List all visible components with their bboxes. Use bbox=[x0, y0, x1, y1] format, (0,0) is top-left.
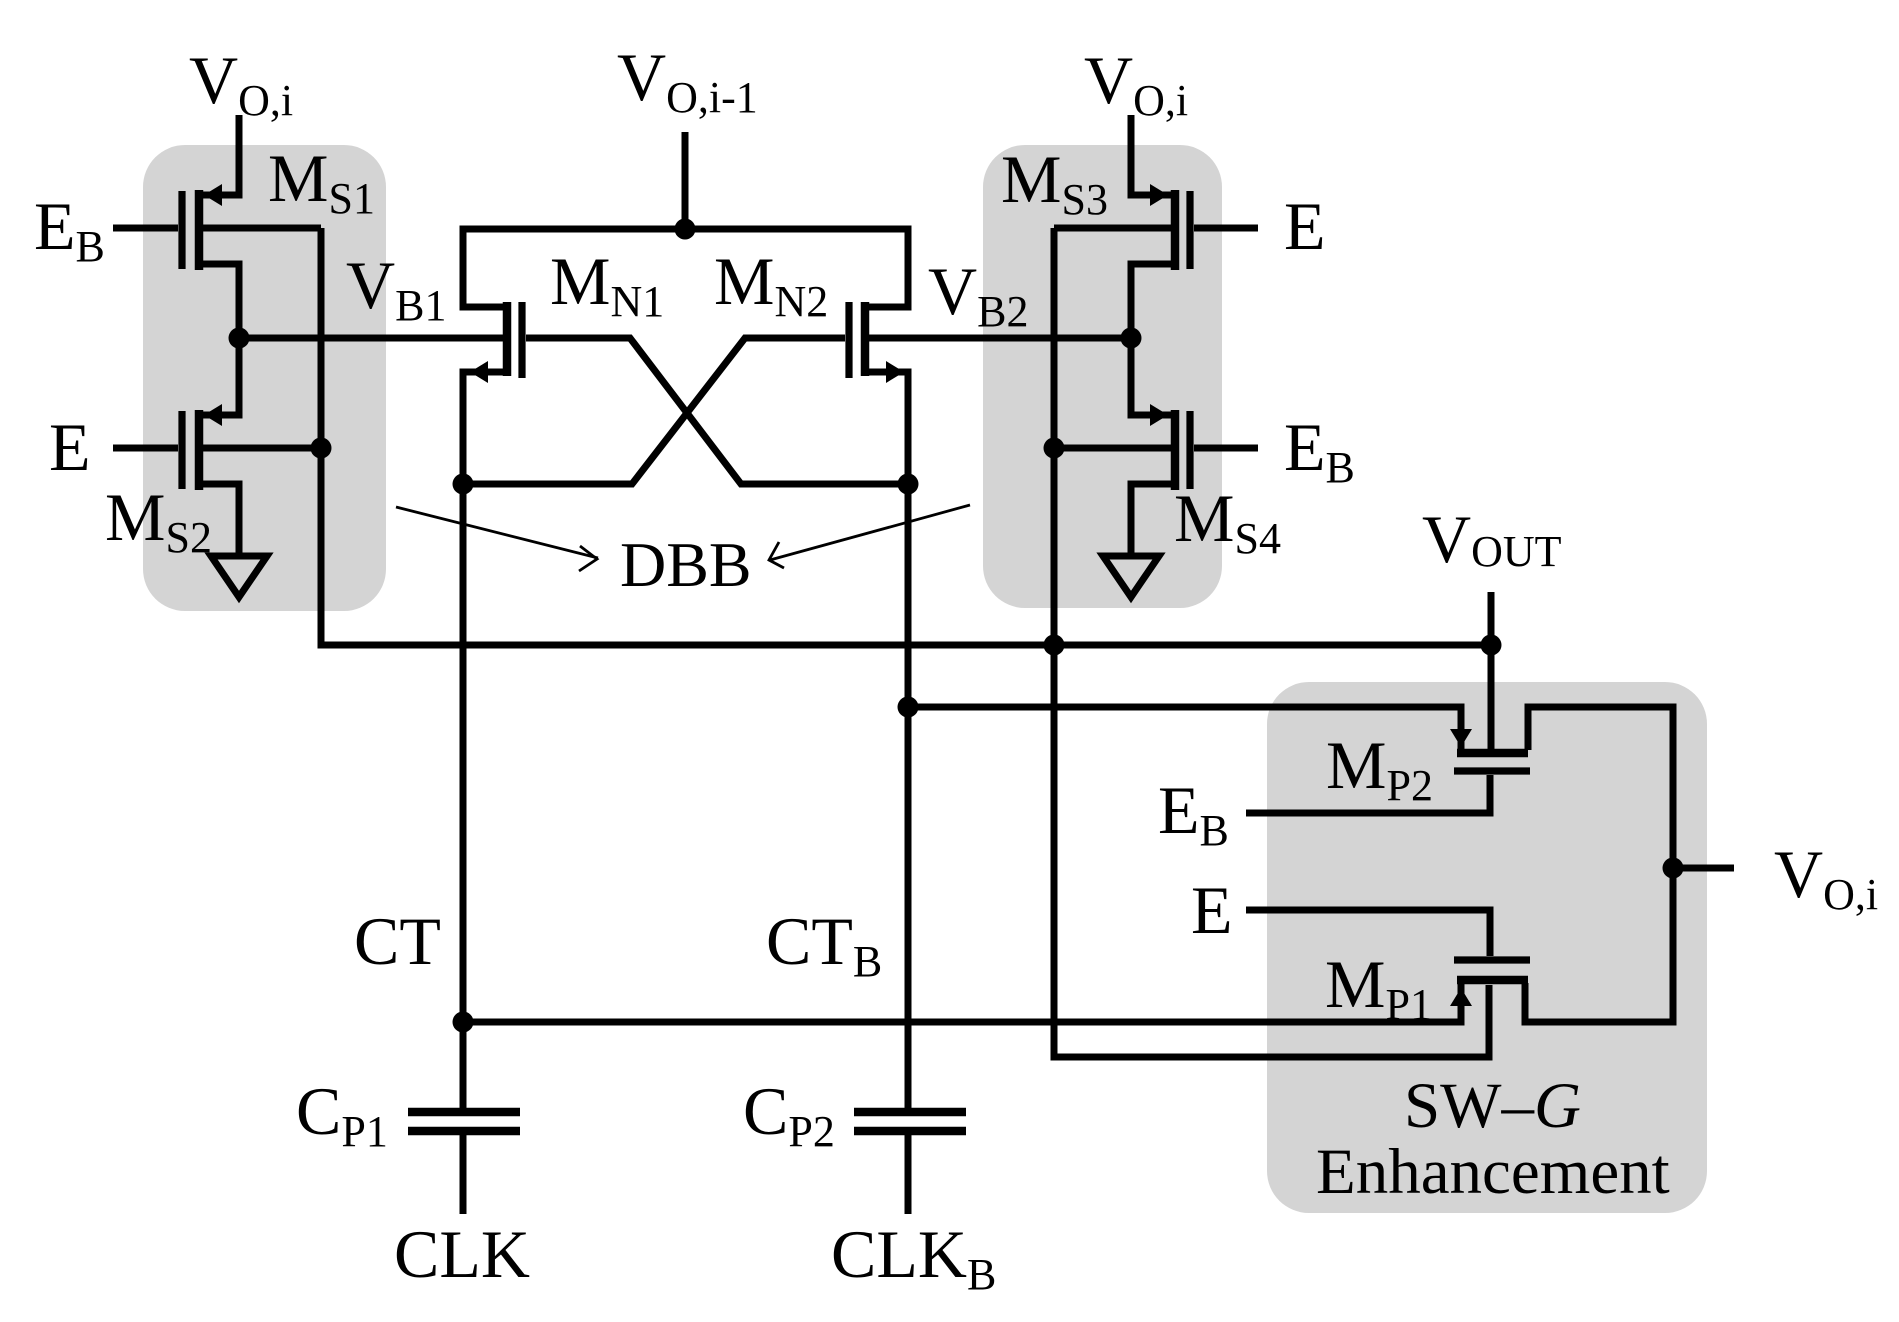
wire V_O,i drop + M_S1 drain lead bbox=[202, 115, 239, 195]
node V_B1 junction dot bbox=[229, 328, 250, 349]
wire M_S1 source lead down to V_B1 bbox=[202, 264, 239, 338]
shaded block: SW-G Enhancement bbox=[1267, 682, 1707, 1213]
transistor M_S2 gate bar bbox=[178, 411, 185, 489]
svg-text:CT: CT bbox=[354, 903, 441, 979]
wire E_B gate lead of M_S1 bbox=[113, 225, 178, 232]
wire V_B1 to M_N1 body bbox=[239, 335, 503, 342]
wire M_N2 gate cross-coupled to CT node bbox=[463, 338, 845, 484]
transistor M_S2 channel bar bbox=[195, 410, 204, 490]
transistor M_P2 gate bar bbox=[1454, 767, 1530, 774]
transistor M_S4 channel bar bbox=[1171, 410, 1180, 490]
transistor M_N1 source arrow (NMOS) bbox=[470, 361, 488, 383]
transistor M_N2 gate bar bbox=[845, 302, 852, 378]
wire M_S1 body lead bbox=[202, 225, 321, 232]
svg-text:E: E bbox=[49, 409, 91, 485]
wire M_N1 gate cross-coupled to CT_B node bbox=[526, 338, 908, 484]
transistor M_N2 channel bar bbox=[861, 302, 870, 376]
node body junction dot (M_S1/M_S2) bbox=[311, 438, 332, 459]
wire M_S4 body lead bbox=[1054, 445, 1172, 452]
wire V_OUT drop to rail and M_P2 body bbox=[1488, 592, 1495, 750]
wire M_P1 source lead + CT wire bbox=[463, 984, 1461, 1022]
wire CT_B to M_P2 source bbox=[908, 707, 1461, 752]
node CT_B junction dot (cross-couple right) bbox=[898, 474, 919, 495]
wire V_O,i output stub bbox=[1673, 865, 1734, 872]
svg-text:E: E bbox=[1191, 872, 1233, 948]
capacitor C_P1 bottom plate bbox=[408, 1127, 520, 1136]
wire bulk line from right switches down to M_P1 body bbox=[1054, 228, 1489, 1057]
wire E gate lead of M_S2 bbox=[113, 445, 178, 452]
transistor M_N2 source arrow (NMOS) bbox=[886, 361, 904, 383]
wire V_B2 from M_N2 body to right switches bbox=[869, 335, 1131, 342]
transistor M_S3 gate bar bbox=[1186, 191, 1193, 269]
ground symbol (right) bbox=[1103, 556, 1159, 597]
capacitor C_P2 top plate bbox=[854, 1108, 966, 1117]
node bulk rail junction dot bbox=[1044, 635, 1065, 656]
wire V_O,i-1 drop bbox=[682, 132, 689, 229]
transistor M_P1 source arrow (PMOS) bbox=[1450, 988, 1472, 1006]
transistor M_P1 channel bar bbox=[1457, 976, 1528, 985]
transistor M_N1 channel bar bbox=[503, 302, 512, 376]
node V_OUT junction dot bbox=[1481, 635, 1502, 656]
wire M_S2 source lead to ground bbox=[202, 484, 239, 556]
wire M_S2 drain lead from V_B1 bbox=[202, 338, 239, 415]
wire V_O,i drop + M_S3 drain lead bbox=[1131, 115, 1178, 195]
transistor M_P2 channel bar bbox=[1457, 749, 1528, 758]
transistor M_S1 gate bar bbox=[178, 191, 185, 269]
wire C_P1 to CLK bbox=[460, 1135, 467, 1214]
wire M_S4 source lead to ground bbox=[1131, 484, 1172, 556]
node V_B2 junction dot bbox=[1121, 328, 1142, 349]
ground symbol (left) bbox=[211, 556, 267, 597]
transistor M_P1 gate bar bbox=[1454, 956, 1530, 963]
svg-text:SW–G: SW–G bbox=[1404, 1070, 1581, 1142]
node CT junction dot bbox=[453, 1012, 474, 1033]
wire M_N1 source lead + left tank vertical to C_P1 bbox=[463, 372, 507, 1112]
transistor M_N1 gate bar bbox=[518, 302, 525, 378]
transistor M_S1 source arrow (PMOS) bbox=[204, 184, 222, 206]
svg-text:Enhancement: Enhancement bbox=[1316, 1136, 1670, 1208]
transistor M_S4 gate bar bbox=[1186, 411, 1193, 489]
transistor M_S3 channel bar bbox=[1171, 190, 1180, 270]
wire E to M_P1 gate lead bbox=[1246, 910, 1490, 956]
svg-text:CLK: CLK bbox=[394, 1216, 530, 1292]
shaded block: M_S1/M_S2 switch pair bbox=[143, 145, 386, 611]
wire E_B gate lead of M_S4 bbox=[1194, 445, 1258, 452]
annotation arrow left to DBB bbox=[396, 507, 598, 558]
shaded block: M_S3/M_S4 switch pair bbox=[983, 145, 1222, 608]
node V_O,i-1 junction dot bbox=[675, 219, 696, 240]
svg-text:E: E bbox=[1284, 188, 1326, 264]
transistor M_P2 source arrow (PMOS) bbox=[1450, 729, 1472, 747]
node CT_B branch dot bbox=[898, 697, 919, 718]
wire M_P2 gate lead to E_B bbox=[1246, 775, 1490, 813]
annotation arrow right to DBB bbox=[770, 505, 970, 560]
wire M_S3 body lead bbox=[1054, 225, 1172, 232]
wire bulk rail from left switches to V_OUT bbox=[321, 228, 1491, 645]
capacitor C_P1 top plate bbox=[408, 1108, 520, 1117]
wire C_P2 to CLK_B bbox=[905, 1135, 912, 1214]
transistor M_S2 source arrow (PMOS) bbox=[204, 404, 222, 426]
wire E gate lead of M_S3 bbox=[1194, 225, 1258, 232]
wire M_S2 body lead bbox=[202, 445, 321, 452]
svg-text:DBB: DBB bbox=[620, 529, 752, 600]
transistor M_S3 source arrow (PMOS) bbox=[1150, 184, 1168, 206]
wire M_P2 drain + right edge + M_P1 drain bbox=[1525, 707, 1673, 1022]
wire M_S4 drain lead from V_B2 bbox=[1131, 338, 1172, 415]
wire M_N2 source lead + right tank vertical to C_P2 bbox=[865, 372, 908, 1112]
node body junction dot (M_S3/M_S4) bbox=[1044, 438, 1065, 459]
capacitor C_P2 bottom plate bbox=[854, 1127, 966, 1136]
transistor M_S4 source arrow (PMOS) bbox=[1150, 404, 1168, 426]
node V_O,i output junction dot bbox=[1663, 858, 1684, 879]
node CT junction dot (cross-couple left) bbox=[453, 474, 474, 495]
wire M_S3 source lead down to V_B2 bbox=[1131, 264, 1172, 338]
wire top rail with M_N1/M_N2 drain leads bbox=[463, 229, 908, 307]
transistor M_S1 channel bar bbox=[195, 190, 204, 270]
